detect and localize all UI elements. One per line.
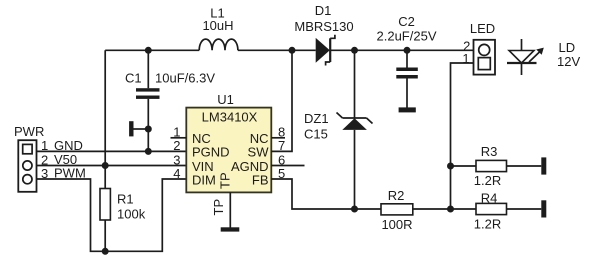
svg-text:DIM: DIM [192,172,216,187]
ground bar at C2 [399,107,416,112]
inductor L1 [199,39,238,50]
wire V50 to U1 pin3 [37,165,187,167]
svg-text:TP: TP [217,172,232,189]
zener DZ1 C15 [304,50,373,209]
svg-text:C2: C2 [398,14,415,29]
svg-text:PWR: PWR [14,124,44,139]
svg-text:7: 7 [278,138,285,153]
svg-text:C15: C15 [304,127,328,142]
resistor R2 100R [381,188,451,232]
node R1 bottom junction [102,248,109,255]
resistor R4 1.2R [451,190,542,231]
wire left riser V50 to rail [104,50,106,165]
wire rail D1 to LED connector [330,49,473,51]
svg-text:12V: 12V [557,54,580,69]
svg-text:R1: R1 [117,192,134,207]
wire SW to rail [271,50,292,151]
node C1 GND junction [145,148,152,155]
svg-text:2.2uF/25V: 2.2uF/25V [377,29,437,44]
resistor R3 1.2R [451,144,542,188]
LED lamp LD [507,39,580,75]
svg-text:LD: LD [559,40,576,55]
svg-text:TP: TP [211,199,226,216]
resistor R1 100k [100,166,146,252]
svg-text:FB: FB [252,172,269,187]
node R3 junction [447,163,454,170]
svg-text:LM3410X: LM3410X [202,110,258,125]
svg-text:1: 1 [462,51,469,66]
op IC U1 LM3410X [186,92,271,192]
svg-text:SW: SW [248,145,270,160]
svg-text:1.2R: 1.2R [474,216,501,231]
pin 1 stub U1 [171,137,187,139]
node DZ1 FB junction [351,206,358,213]
capacitor C1 [125,50,215,151]
node C1 rail junction [145,47,152,54]
wire FB to R2 row [271,179,381,209]
svg-text:10uH: 10uH [202,18,233,33]
svg-text:R3: R3 [481,144,498,159]
svg-text:MBRS130: MBRS130 [294,19,353,34]
svg-text:100k: 100k [117,207,146,222]
svg-text:C1: C1 [125,71,142,86]
node C2 rail junction [404,47,411,54]
svg-text:5: 5 [278,166,285,181]
svg-text:1.2R: 1.2R [474,173,501,188]
connector LED [470,21,495,75]
node V50 riser junction [102,162,109,169]
diode D1 MBRS130 [294,3,353,66]
node C1 ground junction [145,126,152,133]
svg-text:2: 2 [173,138,180,153]
capacitor C2 [377,14,437,108]
svg-text:100R: 100R [381,217,412,232]
pin 6 stub AGND [271,165,304,167]
terminal bar R3 [541,157,546,174]
svg-text:R2: R2 [388,188,405,203]
wire LED cathode riser [451,63,474,209]
node R2 right junction [447,206,454,213]
svg-text:D1: D1 [315,3,332,18]
test point TP [211,192,230,227]
svg-text:DZ1: DZ1 [304,111,329,126]
node DZ1 rail junction [351,47,358,54]
wire PWM detour to U1 pin4 [37,179,187,251]
ground bar at TP [221,227,240,231]
svg-text:PGND: PGND [192,145,230,160]
svg-text:U1: U1 [217,92,234,107]
terminal bar R4 [541,200,546,217]
pin 8 stub U1 [271,137,285,139]
wire GND to U1 pin2 [37,150,187,152]
ground bar at C1 [129,121,148,136]
node SW rail junction [289,47,296,54]
svg-text:R4: R4 [481,190,498,205]
connector PWR [14,124,44,192]
wire top rail left segment [105,49,199,51]
svg-text:LED: LED [470,21,495,36]
svg-text:4: 4 [173,166,180,181]
svg-text:10uF/6.3V: 10uF/6.3V [155,71,215,86]
wire rail L1 to D1 [238,49,316,51]
